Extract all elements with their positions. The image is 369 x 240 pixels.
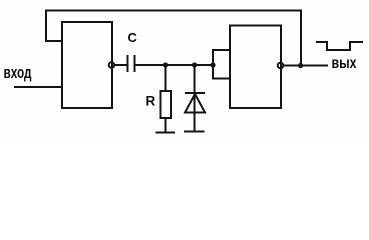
output pulse waveform symbol [317,42,362,50]
wire feedback left drop [45,11,47,42]
inversion bubble gate 1 output [109,62,115,68]
diode VD cathode bar [186,92,204,94]
wire gate 2 tied-input bracket vertical [212,50,214,79]
wire feedback right drop from output node [300,11,302,66]
wire gate 2 input stub bottom [213,78,230,80]
wire input vhod [15,86,62,88]
wire output [284,65,328,67]
capacitor C plate right [134,56,136,71]
wire gate 2 input stub top [213,49,230,51]
diode VD triangle [185,94,205,113]
svg-text:вход: вход [4,63,32,82]
svg-text:R: R [146,93,156,108]
resistor R body [161,91,172,118]
wire bubble to capacitor [115,64,128,66]
wire diode branch vertical [194,65,196,132]
wire capacitor to gate 2 input [136,64,214,66]
ground bar under R [157,132,175,134]
wire feedback top [46,10,301,12]
junction node at output [298,63,303,68]
logic gate DD1.2 body [230,26,281,109]
junction node at R branch [163,62,168,67]
ground bar under diode [185,131,204,133]
logic gate DD1.1 body [62,22,112,108]
inversion bubble gate 2 output [278,63,284,69]
wire feedback into gate 1 input [46,40,62,42]
wire R branch vertical [165,65,167,91]
junction node at diode branch [192,62,197,67]
wire resistor to ground [165,118,167,133]
junction node at gate 2 input [210,62,215,67]
svg-text:вых: вых [332,55,357,72]
capacitor C plate left [127,56,129,71]
svg-text:C: C [128,30,138,45]
